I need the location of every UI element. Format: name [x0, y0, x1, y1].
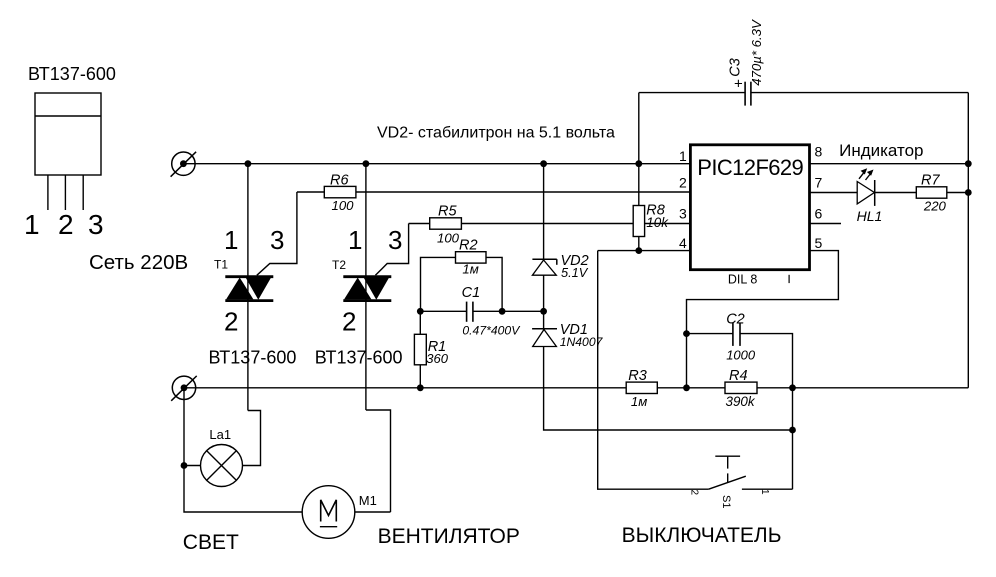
wire bottom rail (terminal to right vertical): [184, 387, 968, 389]
diode VD1: [532, 322, 604, 349]
svg-text:СВЕТ: СВЕТ: [183, 531, 239, 554]
IC U1 PIC12F629: [690, 145, 809, 287]
svg-text:HL1: HL1: [857, 208, 883, 224]
wire pin3 (R5 line to PIC pin 3): [409, 223, 691, 225]
node dot R4 right: [789, 384, 796, 391]
node dot pin8/right rail: [965, 160, 972, 167]
resistor R6: [324, 172, 356, 213]
terminal X2 bottom: [171, 376, 197, 401]
svg-text:100: 100: [332, 198, 355, 213]
svg-text:0.47*400V: 0.47*400V: [462, 324, 521, 338]
svg-text:S1: S1: [720, 495, 732, 508]
svg-text:1м: 1м: [462, 262, 478, 277]
wire pin4 (to PIC pin 4): [598, 250, 691, 252]
node dot rail R3/R4: [683, 384, 690, 391]
svg-text:La1: La1: [209, 427, 231, 442]
node dot T2 top: [363, 160, 370, 167]
node dot R1 bottom: [417, 384, 424, 391]
svg-text:Индикатор: Индикатор: [839, 141, 923, 160]
wire VD chain vertical: [544, 164, 793, 430]
resistor R8 branch vertical: [638, 93, 640, 206]
svg-text:4: 4: [679, 235, 687, 251]
wire pin5 to C2: [687, 251, 839, 388]
svg-text:Сеть 220В: Сеть 220В: [89, 251, 188, 274]
resistor R2 with loop wires: [421, 238, 503, 312]
svg-text:ВТ137-600: ВТ137-600: [28, 64, 116, 84]
node dot C1 right: [499, 308, 506, 315]
motor M1: [302, 410, 390, 538]
node dot C1 left: [417, 308, 424, 315]
svg-text:3: 3: [388, 225, 402, 255]
svg-text:R2: R2: [459, 238, 478, 254]
terminal X1 top: [171, 152, 197, 177]
svg-text:C2: C2: [726, 312, 745, 328]
svg-text:ВТ137-600: ВТ137-600: [209, 347, 297, 367]
svg-text:3: 3: [270, 225, 284, 255]
svg-text:5: 5: [815, 235, 823, 251]
wire pin2 (R6 line to PIC pin 2): [297, 191, 691, 193]
svg-text:390k: 390k: [726, 394, 756, 409]
svg-text:1000: 1000: [726, 348, 756, 363]
wire right vertical rail: [967, 93, 969, 388]
wire top rail (terminal to PIC pin 1): [183, 163, 690, 165]
svg-text:1: 1: [759, 489, 770, 495]
node dot C2 bottom junction: [789, 427, 796, 434]
triac T1: [225, 164, 297, 411]
svg-text:1: 1: [348, 225, 362, 255]
triac T2: [343, 164, 408, 410]
capacitor C1: [420, 285, 543, 338]
svg-text:2: 2: [679, 175, 687, 191]
svg-text:2: 2: [58, 209, 74, 240]
svg-text:1м: 1м: [631, 394, 647, 409]
wire pin6 stub: [810, 223, 842, 225]
svg-text:8: 8: [815, 144, 823, 160]
svg-text:ВЕНТИЛЯТОР: ВЕНТИЛЯТОР: [378, 525, 520, 548]
svg-text:ВЫКЛЮЧАТЕЛЬ: ВЫКЛЮЧАТЕЛЬ: [622, 524, 782, 547]
svg-text:M1: M1: [359, 493, 377, 508]
zener diode VD2: [532, 253, 588, 280]
svg-text:7: 7: [815, 175, 823, 191]
resistor R7: [916, 172, 968, 213]
svg-text:R7: R7: [921, 172, 940, 188]
resistor R4: [725, 368, 757, 409]
svg-text:220: 220: [923, 199, 947, 214]
LED HL1: [857, 168, 917, 224]
svg-text:470µ* 6.3V: 470µ* 6.3V: [749, 19, 764, 86]
svg-text:+: +: [734, 76, 743, 93]
svg-text:1: 1: [224, 225, 238, 255]
wire left drop from terminal X2: [184, 388, 302, 512]
node dot T1 top: [245, 160, 252, 167]
svg-text:R6: R6: [330, 172, 349, 188]
svg-text:C1: C1: [462, 285, 481, 301]
svg-text:2: 2: [342, 307, 356, 337]
svg-text:100: 100: [437, 231, 460, 246]
svg-text:R3: R3: [628, 368, 647, 384]
svg-text:3: 3: [679, 206, 687, 222]
svg-text:6: 6: [815, 206, 823, 222]
svg-text:2: 2: [224, 307, 238, 337]
svg-text:360: 360: [426, 351, 448, 366]
svg-text:PIC12F629: PIC12F629: [697, 155, 803, 180]
resistor R5: [430, 204, 462, 246]
svg-text:C3: C3: [728, 58, 744, 77]
svg-text:R4: R4: [729, 368, 748, 384]
node dot C2 left: [683, 330, 690, 337]
svg-text:3: 3: [88, 209, 104, 240]
svg-text:VD2- стабилитрон на 5.1 вольта: VD2- стабилитрон на 5.1 вольта: [377, 125, 615, 142]
svg-text:5.1V: 5.1V: [561, 265, 589, 280]
svg-text:1: 1: [24, 209, 40, 240]
wire pin4 down to switch: [598, 251, 709, 490]
node dot R8/C3 branch: [635, 160, 642, 167]
svg-text:T2: T2: [332, 258, 346, 272]
node dot lamp left: [181, 462, 188, 469]
switch S1: [689, 456, 793, 508]
capacitor C2: [687, 312, 793, 490]
lamp La1: [183, 411, 261, 487]
svg-text:1: 1: [679, 148, 687, 164]
wire pin8 to right rail: [810, 163, 969, 165]
node dot C1 to VD chain: [540, 308, 547, 315]
resistor R8: [633, 203, 669, 237]
package drawing BT137-600 (TO-220 outline): [35, 93, 101, 210]
svg-text:10k: 10k: [646, 215, 669, 230]
resistor R1: [414, 311, 448, 388]
svg-text:T1: T1: [214, 258, 228, 272]
svg-text:ВТ137-600: ВТ137-600: [315, 347, 403, 367]
svg-text:2: 2: [689, 490, 700, 496]
svg-text:DIL 8: DIL 8: [728, 273, 757, 287]
wire pin7 to LED: [810, 192, 858, 194]
svg-text:R5: R5: [438, 204, 457, 220]
capacitor C3: [639, 19, 969, 106]
node dot R8 bottom: [635, 247, 642, 254]
node dot VD chain top: [540, 160, 547, 167]
resistor R3: [626, 368, 657, 409]
node dot R7/right rail: [965, 189, 972, 196]
